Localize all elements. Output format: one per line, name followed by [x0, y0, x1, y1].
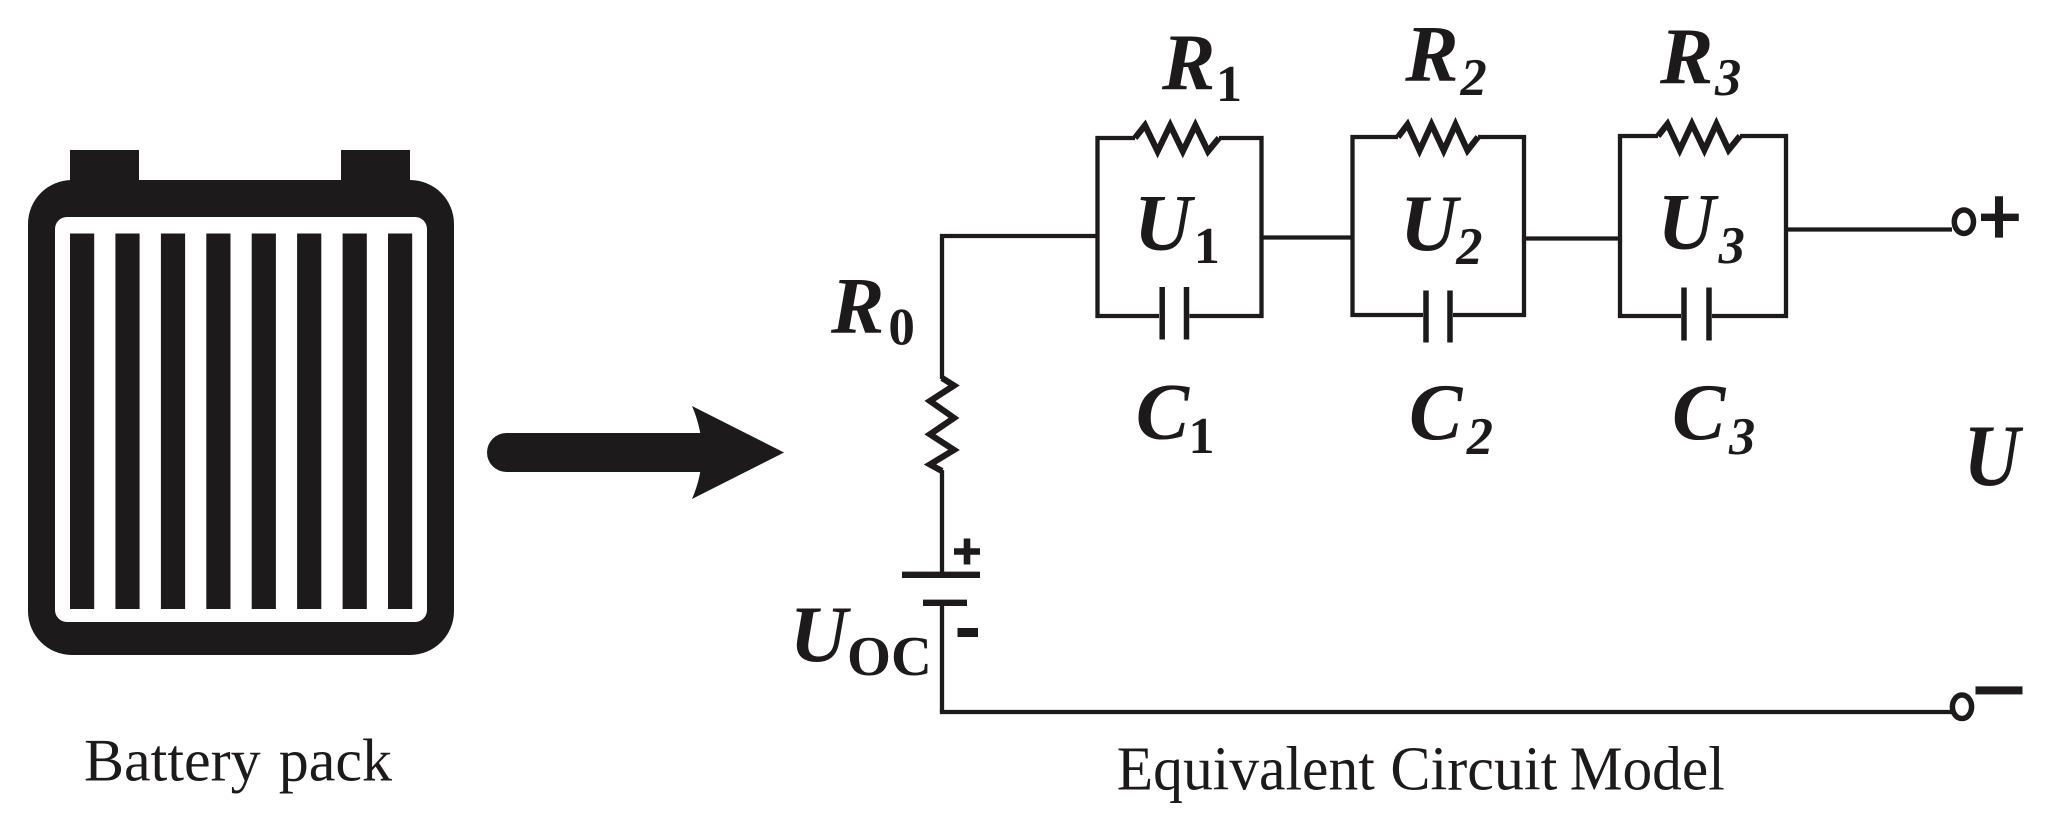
- svg-text:U: U: [1134, 180, 1196, 268]
- svg-text:1: 1: [1189, 408, 1215, 465]
- svg-text:U: U: [790, 592, 852, 680]
- RC box 3 outline: [1620, 136, 1786, 316]
- minus terminal mark: [1976, 686, 2023, 694]
- battery source Uoc short plate: [923, 600, 967, 606]
- wire top-left corner R0 to box1: [942, 236, 1098, 379]
- svg-text:1: 1: [1216, 56, 1242, 113]
- label U1: [1134, 180, 1220, 275]
- svg-text:1: 1: [1194, 218, 1220, 275]
- battery cell stripe 1: [70, 234, 94, 610]
- resistor R3 zigzag: [1658, 124, 1740, 150]
- svg-text:0: 0: [888, 299, 915, 357]
- svg-text:2: 2: [1466, 408, 1493, 466]
- label R2: [1404, 11, 1486, 107]
- label C2: [1409, 369, 1493, 466]
- svg-text:R: R: [1161, 20, 1215, 108]
- battery cell stripe 7: [343, 234, 367, 610]
- capacitor C3 plates: [1684, 288, 1709, 341]
- svg-text:Equivalent: Equivalent: [1117, 736, 1375, 804]
- svg-text:Circuit: Circuit: [1390, 736, 1557, 804]
- svg-text:3: 3: [1728, 408, 1755, 466]
- battery cell stripe 2: [115, 234, 139, 610]
- battery plus mark: [954, 539, 980, 565]
- svg-text:C: C: [1672, 369, 1727, 457]
- battery terminal tab left: [70, 150, 139, 190]
- svg-text:2: 2: [1455, 218, 1482, 276]
- RC box 2 outline: [1353, 137, 1525, 315]
- battery source Uoc long plate: [902, 572, 980, 578]
- label C3: [1672, 369, 1755, 466]
- battery cell stripe 6: [297, 234, 321, 610]
- svg-text:3: 3: [1714, 49, 1741, 107]
- label R1: [1161, 20, 1242, 114]
- svg-text:3: 3: [1718, 217, 1745, 275]
- svg-text:OC: OC: [847, 626, 932, 688]
- svg-text:Model: Model: [1570, 736, 1725, 804]
- bottom rail wire: [940, 710, 1952, 714]
- svg-text:2: 2: [1460, 49, 1487, 107]
- plus terminal mark: [1981, 196, 2019, 237]
- svg-text:R: R: [1404, 11, 1458, 99]
- svg-text:R: R: [1659, 14, 1713, 102]
- svg-text:Battery: Battery: [84, 728, 261, 794]
- label C1: [1136, 369, 1215, 466]
- battery cell stripe 5: [252, 234, 276, 610]
- wire battery to bottom rail: [940, 603, 944, 712]
- resistor R2 zigzag: [1398, 125, 1478, 151]
- battery cell stripe 4: [206, 234, 230, 610]
- capacitor C1 plates: [1162, 287, 1186, 340]
- label R3: [1659, 14, 1741, 107]
- wire box2 to box3: [1524, 236, 1620, 240]
- svg-text:U: U: [1658, 179, 1720, 267]
- svg-text:U: U: [1400, 180, 1462, 268]
- battery body: [28, 180, 454, 655]
- arrow battery to circuit: [487, 406, 784, 499]
- battery pack icon: [28, 150, 454, 655]
- wire box3 to plus terminal: [1786, 227, 1952, 231]
- capacitor C2 plates: [1426, 291, 1450, 343]
- battery cell stripe 8: [388, 234, 412, 610]
- label U2: [1400, 180, 1482, 276]
- svg-text:C: C: [1409, 369, 1464, 457]
- resistor R0: [930, 378, 954, 471]
- wire R0 to battery source: [940, 470, 944, 572]
- wire box1 to box2: [1262, 235, 1353, 239]
- resistor R1 zigzag: [1135, 125, 1219, 151]
- svg-text:U: U: [1964, 408, 2024, 505]
- label U3: [1658, 179, 1745, 275]
- plus terminal node: [1954, 210, 1973, 234]
- label Uoc: [790, 592, 932, 688]
- svg-text:R: R: [830, 263, 884, 351]
- battery terminal tab right: [341, 150, 410, 190]
- battery cell stripe 3: [161, 234, 185, 610]
- minus terminal node: [1952, 695, 1971, 719]
- battery minus mark: [958, 628, 979, 637]
- svg-text:C: C: [1136, 369, 1191, 457]
- svg-text:pack: pack: [279, 728, 392, 794]
- RC box 1 outline: [1098, 138, 1262, 316]
- label U output: [1964, 408, 2024, 505]
- battery body inner: [55, 217, 427, 622]
- label R0: [830, 263, 915, 357]
